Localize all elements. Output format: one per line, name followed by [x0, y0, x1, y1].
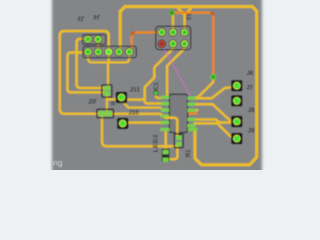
wire: D1 left pad down then right to R1 bottom pad [102, 117, 177, 146]
svg-text:J11: J11 [130, 86, 141, 93]
wire: C2 bottom pad down to D1 right pad [106, 95, 108, 111]
capacitor C2 (vertical 2-pad, x~107) [102, 85, 112, 97]
svg-text:ng: ng [53, 158, 63, 168]
svg-text:LED2: LED2 [153, 134, 160, 152]
wire: orange from top via right and down to mid via [173, 13, 214, 75]
IC1 left pads [160, 96, 169, 132]
header J2 pad 4 [115, 48, 124, 57]
IC1 right pads [187, 97, 197, 132]
wire: IC right row1 to pad J7 [195, 87, 232, 98]
wire: IC row6 left pad down to LED2 pad1 [164, 131, 167, 151]
header J1 pad 2 [94, 35, 103, 44]
svg-text:20: 20 [88, 99, 97, 106]
pad J11 (square) [116, 92, 127, 103]
wire: orange from header pad (161.8,32.3) left and down into bottom header pad5 [132, 32, 161, 48]
diode D1 (horizontal 2-pad, y~113.6) [97, 109, 114, 118]
wire: route header (184.6,43.8) down-left to via/IC row1 [167, 45, 185, 96]
wire: dark-red tint at orange corner near pad5 [132, 32, 135, 35]
svg-text:J7: J7 [246, 86, 253, 92]
pad square 3 [231, 116, 242, 127]
wire: orange stub at IC right side [189, 112, 197, 114]
IC1 body [169, 94, 187, 132]
via V1 (top, 171.8,12.7) [169, 10, 175, 16]
pad J6/J7 column square 1 [231, 80, 242, 91]
svg-text:J8: J8 [248, 108, 255, 114]
wire: route header (173,43.8) down-left to J11 and IC row2 [127, 45, 174, 104]
wire: V2 from bottom header pad1 left-down to C2 bottom pad [67, 53, 103, 93]
via V2 (mid, 213.3,77) [210, 74, 216, 80]
header J3 pad r1c3 [180, 28, 189, 37]
header J2 pad 5 [125, 48, 134, 57]
wire: header pad (173,32.3) up to via at (171.8,12.7) [172, 14, 173, 31]
header J2 pad 1 [84, 48, 93, 57]
ratsnest magenta from red pad to IC pin1 area [162, 46, 190, 96]
wire: J10 to IC row5 [127, 121, 162, 124]
svg-text:J4: J4 [93, 13, 100, 19]
svg-text:R1: R1 [185, 149, 192, 157]
header J1 pad 1 [84, 35, 93, 44]
wire: big ring net pad J? (pad4 of bottom header) to IC pin via top/right/bottom board edge [120, 7, 257, 165]
svg-text:J3: J3 [77, 14, 84, 20]
pad J10 (square) [117, 118, 128, 129]
connector header J2 outline (5-pad row) [83, 46, 136, 57]
svg-text:13: 13 [184, 13, 190, 20]
svg-text:J9: J9 [248, 128, 255, 134]
wire: J11 pad left stub [107, 98, 117, 100]
wire: J11 to IC row3 [125, 104, 161, 108]
wire: Y-branch from top ring into header J3 pad (184.6,32.3) [178, 8, 191, 31]
wire: IC right row3 stub [195, 109, 198, 111]
wire: via V3 jog into IC row1 left [156, 94, 163, 98]
svg-text:J6: J6 [247, 71, 254, 77]
wire: comb joining bottom header pads 1,3,5 [88, 52, 129, 86]
header J2 pad 2 [94, 48, 103, 57]
wire: dark-red tint at orange corner near via [210, 13, 213, 16]
wire: via (213.3,77) down-left into IC right row1 [196, 79, 213, 98]
pad square 2 [231, 95, 242, 106]
header J3 pad r2c1 (red) [157, 39, 166, 48]
wire: IC right row2 diagonal to pad J8 top [195, 104, 231, 121]
header J3 pad r2c3 [180, 39, 189, 48]
wire: LED2 pad2 right and up to R1 bottom pad [167, 147, 177, 160]
wire: IC right row4 to pad J8 [195, 120, 232, 123]
IC1 pin1 notch [176, 133, 182, 136]
wire: long horizontal into IC pin row4 [104, 114, 166, 116]
wire: V3 from top header pad1 left-down to C2 top pad [77, 39, 105, 88]
LED2 (vertical 2-pad, below IC left) [162, 149, 170, 162]
via V3 (left of IC, 155.9,92.9) [153, 90, 158, 95]
board substrate [52, 0, 262, 174]
header J3 pad r1c2 [169, 28, 178, 37]
svg-text:IC1: IC1 [153, 82, 160, 92]
wire: IC right row5 diagonal to pad J9 [195, 123, 234, 138]
wire: IC row4 through body down to R1 top pad (over body) [166, 118, 178, 138]
connector header J3 outline (2x3, top-centre) [156, 26, 191, 49]
header J2 pad 3 (highlighted) [104, 48, 113, 57]
header J3 pad r2c2 [169, 39, 178, 48]
header J3 pad r1c1 [157, 28, 166, 37]
wire: pad2 column between headers [97, 39, 100, 52]
resistor R1 (vertical 2-pad below IC) [174, 134, 183, 148]
connector header J1 outline (2-pad, top-left) [82, 35, 105, 45]
svg-text:J10: J10 [128, 109, 139, 116]
pad square 4 [231, 133, 242, 144]
wire: V1 loop - long horizontal y=113.7, left vertical x=61.5, top horizontal y=31 into pad3 [60, 31, 109, 114]
